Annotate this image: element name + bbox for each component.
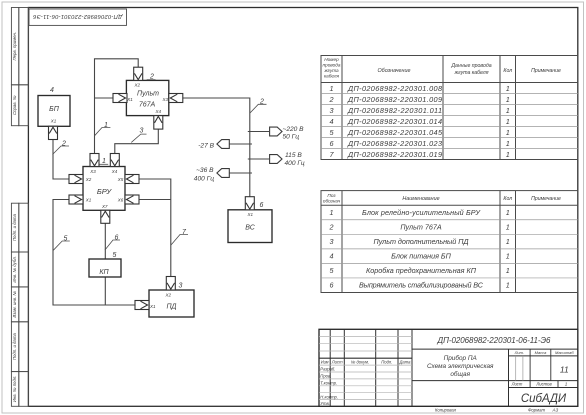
svg-text:1: 1 <box>506 95 510 104</box>
connector БРУ X7 <box>101 210 110 223</box>
svg-text:X2: X2 <box>85 177 92 182</box>
svg-text:Изм: Изм <box>321 360 329 365</box>
wire 5: БРУ X1 left, down, right to ПД X1 <box>53 200 135 306</box>
wire 3: Пульт X4 down-left-down to БРУ X4 <box>115 129 159 153</box>
svg-text:1: 1 <box>104 122 108 129</box>
svg-text:1: 1 <box>506 84 510 93</box>
svg-text:Наименование: Наименование <box>402 196 439 202</box>
Лит sub-columns (thin) <box>516 356 523 381</box>
off-sheet arrow -27 В <box>217 140 229 149</box>
svg-text:Листов: Листов <box>535 382 552 387</box>
svg-text:ДП-02068982-220301.014: ДП-02068982-220301.014 <box>347 117 442 126</box>
wire 5 label leader <box>53 241 70 251</box>
block Пульт 767А (item 2) <box>126 80 168 115</box>
off-sheet arrow ~36 В 400 Гц <box>217 169 229 178</box>
wire 2 label leader (right) <box>250 104 267 113</box>
svg-text:общая: общая <box>450 370 470 378</box>
wire branch to ~36 В arrow <box>230 172 253 174</box>
svg-text:Кол: Кол <box>503 68 512 74</box>
svg-text:Дата: Дата <box>398 360 411 365</box>
left margin box "Взам. инв. №" <box>11 287 28 322</box>
wire 1 label leader <box>95 128 111 136</box>
svg-text:Инв. № дубл.: Инв. № дубл. <box>12 256 17 282</box>
svg-text:X4: X4 <box>111 169 118 174</box>
svg-text:X1: X1 <box>246 212 253 217</box>
svg-text:жгута кабеля: жгута кабеля <box>454 70 489 76</box>
svg-text:1: 1 <box>506 117 510 126</box>
svg-text:БРУ: БРУ <box>97 187 113 196</box>
svg-text:1: 1 <box>506 150 510 159</box>
svg-text:1: 1 <box>506 106 510 115</box>
svg-text:2: 2 <box>329 222 334 231</box>
svg-text:1: 1 <box>506 237 510 246</box>
svg-text:Формат: Формат <box>528 408 545 413</box>
items list table grid <box>321 191 578 293</box>
svg-text:ДП-02068982-220301.009: ДП-02068982-220301.009 <box>347 95 442 104</box>
left margin box "Инв. № дубл." <box>11 252 28 287</box>
wire branch: node to Пульт X1 <box>95 97 114 99</box>
wire 2: Пульт X3 right then down to ВС X1 <box>183 98 250 197</box>
connector Пульт X3 <box>169 94 183 103</box>
connector Пульт X4 <box>154 116 163 130</box>
wire 2 label leader <box>53 146 70 155</box>
connector ВС X1 <box>245 197 254 210</box>
svg-text:КП: КП <box>99 269 109 276</box>
connector БП X1 <box>49 126 58 139</box>
connector ПД X1 <box>135 301 149 310</box>
svg-text:1: 1 <box>506 139 510 148</box>
svg-text:X3: X3 <box>89 169 96 174</box>
svg-text:Перв. примен.: Перв. примен. <box>12 32 17 61</box>
svg-text:обознач: обознач <box>323 199 341 204</box>
svg-text:Номер: Номер <box>324 57 339 62</box>
svg-text:СибАДИ: СибАДИ <box>521 393 567 405</box>
svg-text:4: 4 <box>329 117 333 126</box>
svg-text:Пров.: Пров. <box>320 374 331 379</box>
svg-text:Схема электрическая: Схема электрическая <box>427 363 494 370</box>
connector Пульт X2 <box>134 67 143 80</box>
left margin box "Перв. примен." <box>11 8 28 85</box>
wire branch to -27 В arrow <box>230 143 253 145</box>
svg-text:ДП-02068982-220301.019: ДП-02068982-220301.019 <box>347 150 442 159</box>
svg-text:Прибор ПА: Прибор ПА <box>444 354 477 362</box>
svg-text:X3: X3 <box>161 97 168 102</box>
svg-text:Пульт: Пульт <box>137 91 159 98</box>
wire branch to 115 В arrow <box>248 158 269 160</box>
svg-text:1: 1 <box>506 208 510 217</box>
svg-text:5: 5 <box>64 235 68 242</box>
svg-text:Инв. № подл.: Инв. № подл. <box>12 376 17 403</box>
svg-text:жгута: жгута <box>323 68 339 73</box>
svg-text:X2: X2 <box>134 83 141 88</box>
connector ПД X2 <box>166 277 175 291</box>
svg-text:Поз: Поз <box>327 193 336 198</box>
wire 7 label leader <box>171 235 188 246</box>
svg-text:Выпрямитель стабилизированый В: Выпрямитель стабилизированый ВС <box>359 281 484 290</box>
block БРУ (item 1) <box>83 167 125 211</box>
svg-text:2: 2 <box>259 98 264 105</box>
svg-text:4: 4 <box>50 87 54 94</box>
wire branch to ~220 В arrow <box>248 131 269 133</box>
off-sheet arrow 115 В 400 Гц <box>270 155 282 164</box>
svg-text:Подп. и дата: Подп. и дата <box>12 333 17 361</box>
svg-text:Разраб.: Разраб. <box>320 367 335 372</box>
connector БРУ X3 <box>90 154 99 167</box>
svg-text:Данные провода: Данные провода <box>450 63 491 69</box>
svg-text:ДП-02068982-220301.011: ДП-02068982-220301.011 <box>347 106 442 115</box>
wire 7: БРУ X5 right then down to ПД X2 <box>139 179 171 277</box>
wire table grid <box>321 56 578 160</box>
svg-text:1: 1 <box>506 281 510 290</box>
title block thick divider above signature header <box>319 357 412 359</box>
svg-text:Блок питания БП: Блок питания БП <box>391 252 451 261</box>
svg-text:Обозначение: Обозначение <box>377 68 410 74</box>
wire 6 label leader <box>105 240 120 250</box>
svg-text:X7: X7 <box>101 204 108 209</box>
svg-text:Масса: Масса <box>535 350 548 355</box>
svg-text:50 Гц: 50 Гц <box>283 133 300 140</box>
signature header row texts <box>321 360 411 365</box>
svg-text:Масштаб: Масштаб <box>555 350 574 355</box>
left margin box "Подп. и дата" (upper) <box>11 203 28 252</box>
svg-text:ДП-02068982-220301-06-11-Э6: ДП-02068982-220301-06-11-Э6 <box>32 13 123 19</box>
title block outer border <box>319 329 578 406</box>
svg-text:кабеля: кабеля <box>324 74 340 79</box>
wire 3 label leader <box>131 134 146 142</box>
svg-text:Подп. и дата: Подп. и дата <box>12 214 17 242</box>
svg-text:№ докум.: № докум. <box>351 360 369 365</box>
svg-text:Коробка предохранительная КП: Коробка предохранительная КП <box>366 266 477 275</box>
block ВС (item 6) <box>228 210 272 243</box>
svg-text:Утв.: Утв. <box>320 401 330 406</box>
svg-text:Справ. №: Справ. № <box>12 95 17 115</box>
svg-text:115 В: 115 В <box>285 152 302 159</box>
svg-text:X4: X4 <box>154 109 161 114</box>
svg-text:2: 2 <box>328 95 333 104</box>
wire 6: БРУ X7 down to КП <box>104 223 106 259</box>
svg-text:Копировал: Копировал <box>435 408 457 413</box>
title block right section verticals <box>530 349 558 387</box>
left margin box "Справ. №" <box>11 85 28 126</box>
title block main verticals <box>330 329 508 406</box>
svg-text:~220 В: ~220 В <box>283 126 305 133</box>
svg-text:ДП-02068982-220301.045: ДП-02068982-220301.045 <box>347 128 443 137</box>
items list rows <box>329 208 510 290</box>
svg-text:провода: провода <box>323 63 341 68</box>
svg-text:3: 3 <box>329 106 333 115</box>
svg-text:ДП-02068982-220301.023: ДП-02068982-220301.023 <box>347 139 442 148</box>
svg-text:~36 В: ~36 В <box>196 167 214 174</box>
svg-text:Пульт дополнительный ПД: Пульт дополнительный ПД <box>374 237 469 246</box>
svg-text:5: 5 <box>113 252 117 259</box>
svg-text:Лит.: Лит. <box>514 350 524 355</box>
svg-text:1: 1 <box>506 266 510 275</box>
svg-text:1: 1 <box>329 84 333 93</box>
svg-text:X6: X6 <box>117 198 124 203</box>
title block right part horizontals <box>412 349 578 387</box>
block БП (item 4) <box>38 96 70 127</box>
svg-text:2: 2 <box>61 140 66 147</box>
svg-text:Н.контр.: Н.контр. <box>320 394 338 399</box>
wire 1: Пульт X2 up-left-down to БРУ X3 <box>95 59 139 154</box>
wire: БРУ X6 joining wire 7 <box>139 199 171 201</box>
svg-text:11: 11 <box>560 364 569 374</box>
svg-text:1: 1 <box>506 128 510 137</box>
svg-text:3: 3 <box>179 283 183 290</box>
block КП (item 5) <box>89 259 121 277</box>
svg-text:-27 В: -27 В <box>198 142 214 149</box>
svg-text:А3: А3 <box>552 408 559 413</box>
wire table headers <box>323 57 562 79</box>
connector БРУ X5 <box>125 175 139 184</box>
svg-text:6: 6 <box>260 202 264 209</box>
connector БРУ X2 <box>69 175 83 184</box>
svg-text:1: 1 <box>565 382 568 387</box>
top stamp box with rotated document number <box>29 9 127 25</box>
Лит Масса Масштаб headers <box>514 350 575 355</box>
svg-text:Т.контр.: Т.контр. <box>320 381 337 386</box>
svg-text:3: 3 <box>330 237 334 246</box>
connector БРУ X1 <box>69 195 83 204</box>
title block left part row lines (thin) <box>319 337 412 400</box>
svg-text:Взам. инв. №: Взам. инв. № <box>12 291 17 318</box>
signature role labels <box>320 367 338 407</box>
svg-text:ДП-02068982-220301-06-11-Э6: ДП-02068982-220301-06-11-Э6 <box>437 336 552 345</box>
svg-text:Примечание: Примечание <box>531 196 561 202</box>
svg-text:400 Гц: 400 Гц <box>194 175 214 182</box>
svg-text:X1: X1 <box>149 304 156 309</box>
left margin box "Подп. и дата" (lower) <box>11 322 28 372</box>
svg-text:ДП-02068982-220301.008: ДП-02068982-220301.008 <box>347 84 443 93</box>
svg-text:Кол: Кол <box>503 196 512 202</box>
svg-text:X1: X1 <box>50 119 57 124</box>
svg-text:X2: X2 <box>165 292 172 297</box>
svg-text:6: 6 <box>330 281 334 290</box>
svg-text:3: 3 <box>140 128 144 135</box>
connector Пульт X1 <box>113 94 127 103</box>
off-sheet arrow ~220 В 50 Гц <box>270 127 282 136</box>
svg-text:1: 1 <box>506 252 510 261</box>
Лист / Листов row <box>511 382 568 387</box>
svg-text:Подп.: Подп. <box>381 360 392 365</box>
svg-text:1: 1 <box>506 222 510 231</box>
connector БРУ X6 <box>125 195 139 204</box>
block ПД (item 3) <box>149 290 194 317</box>
svg-text:Лист: Лист <box>331 360 343 365</box>
svg-text:БП: БП <box>49 106 60 113</box>
svg-text:X1: X1 <box>85 198 92 203</box>
svg-text:767А: 767А <box>139 101 156 108</box>
svg-text:Пульт 767А: Пульт 767А <box>400 222 442 231</box>
connector БРУ X4 <box>110 154 119 167</box>
svg-text:400 Гц: 400 Гц <box>285 160 305 167</box>
wire: КП down to wire 5 <box>104 277 106 305</box>
items list headers <box>323 193 561 204</box>
svg-text:Примечание: Примечание <box>531 68 561 74</box>
svg-text:Лист: Лист <box>511 382 523 387</box>
wire 2: БП X1 down-right to БРУ X2 <box>53 140 69 180</box>
wire table rows <box>328 84 509 159</box>
left margin box "Инв. № подл." <box>11 372 28 407</box>
svg-text:ВС: ВС <box>245 225 256 232</box>
svg-text:4: 4 <box>330 252 334 261</box>
svg-text:1: 1 <box>330 208 334 217</box>
svg-text:ПД: ПД <box>166 304 176 311</box>
svg-text:6: 6 <box>115 234 119 241</box>
svg-text:X5: X5 <box>117 177 124 182</box>
svg-text:Блок релейно-усилительный БРУ: Блок релейно-усилительный БРУ <box>362 208 481 217</box>
